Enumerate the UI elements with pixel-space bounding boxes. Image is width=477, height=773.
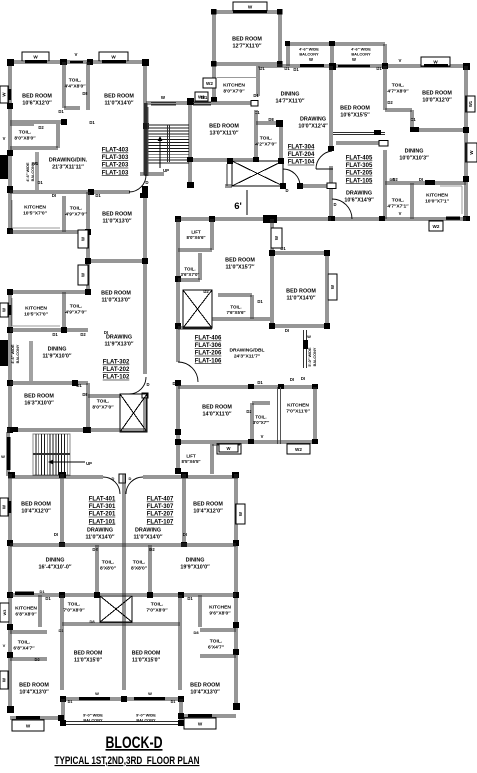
balcony label 9'-0 R	[136, 713, 156, 723]
svg-text:BED ROOM: BED ROOM	[132, 651, 161, 657]
balcony label vertical upper-left	[26, 162, 35, 182]
svg-text:W: W	[33, 54, 38, 59]
svg-text:4'7″X8'0″: 4'7″X8'0″	[387, 89, 409, 95]
bottom-left bedroom south wall	[10, 715, 64, 721]
wall y545	[10, 544, 236, 552]
svg-text:D: D	[129, 476, 132, 481]
room label DINING 10'0x10'3	[399, 149, 429, 162]
right wing balcony walls	[285, 41, 386, 66]
svg-text:10'4″X13'0″: 10'4″X13'0″	[19, 690, 49, 696]
room label TOIL 7'6x5'6	[227, 305, 247, 315]
svg-text:11'0″X13'0″: 11'0″X13'0″	[101, 298, 130, 304]
door DI marks drawing	[54, 532, 187, 537]
room label BED ROOM 14'0x11'0 mid	[202, 405, 232, 418]
flat labels 403	[102, 148, 129, 177]
svg-text:D1: D1	[76, 383, 82, 388]
svg-text:3'0″X7'″: 3'0″X7'″	[253, 420, 270, 425]
svg-text:DINING: DINING	[405, 149, 424, 155]
svg-text:D1: D1	[253, 93, 259, 98]
room label BED ROOM 11'0x15'0 R	[132, 651, 161, 664]
svg-text:FLAT-204: FLAT-204	[288, 152, 315, 158]
svg-text:FLAT-405: FLAT-405	[346, 156, 373, 162]
svg-text:11'9″X10'0″: 11'9″X10'0″	[42, 354, 71, 360]
room label LIFT 8'5x6'5	[182, 454, 202, 464]
svg-text:TOIL.: TOIL.	[230, 305, 241, 310]
svg-text:TOIL.: TOIL.	[68, 602, 81, 608]
window W box bottom-left wall	[0, 498, 12, 516]
toilet3 walls	[87, 383, 120, 432]
balcony label 9'-0 L	[83, 713, 103, 723]
svg-text:8'X8'0″: 8'X8'0″	[100, 566, 117, 572]
room label TOIL 8'0x8'0	[14, 130, 36, 142]
room label TOIL 7'0x8'0 L	[63, 602, 85, 614]
room label DRAWING/DBL 24'3x11'7	[229, 348, 264, 360]
svg-text:D1: D1	[58, 109, 64, 114]
toilet 4'7x8'0 walls	[385, 100, 413, 130]
svg-text:DRAWING: DRAWING	[87, 528, 113, 534]
svg-text:11'9″X13'0″: 11'9″X13'0″	[104, 342, 133, 348]
svg-text:D1: D1	[257, 380, 263, 385]
svg-text:BED ROOM: BED ROOM	[340, 106, 370, 112]
balcony wall 5'-0 wide	[303, 330, 311, 368]
svg-text:10'0″X12'0″: 10'0″X12'0″	[422, 98, 452, 104]
wall y383	[10, 380, 88, 388]
room label DRAWING/DIN 21'3x11'11	[49, 158, 88, 171]
svg-text:19'9″X10'0″: 19'9″X10'0″	[180, 565, 210, 571]
svg-text:BED ROOM: BED ROOM	[193, 502, 223, 508]
svg-text:BED ROOM: BED ROOM	[24, 394, 54, 400]
room label BED ROOM 11'0x14'0 mid	[286, 289, 316, 302]
room label TOIL 4'7x8'0	[387, 83, 409, 95]
svg-text:KITCHEN: KITCHEN	[223, 83, 245, 89]
lightwell windows W x2	[78, 230, 88, 285]
svg-text:16'-4″X10'-0″: 16'-4″X10'-0″	[39, 565, 72, 571]
svg-text:D: D	[333, 202, 336, 207]
svg-text:DINING: DINING	[186, 558, 205, 564]
svg-text:D1: D1	[52, 332, 58, 337]
right wing bottom wall	[328, 211, 466, 221]
lift C walls	[211, 443, 240, 474]
window W top-center	[233, 2, 267, 13]
svg-text:BED ROOM: BED ROOM	[422, 91, 452, 97]
room label DINING 14'7x11'0	[275, 92, 304, 105]
lift room B walls	[178, 219, 213, 251]
kitchen counter 2	[12, 298, 60, 326]
toilet 4'4x8'0 walls	[63, 62, 89, 110]
room label TOIL 4'9x7'0 (2)	[65, 304, 87, 316]
svg-text:14'7″X11'0″: 14'7″X11'0″	[275, 99, 304, 105]
staircase-2 treads	[33, 434, 70, 475]
bottom wing right wall	[233, 474, 240, 710]
svg-text:10'5″X7'0″: 10'5″X7'0″	[24, 312, 49, 318]
room label BED ROOM 10'0x12'0	[422, 91, 452, 104]
svg-text:FLAT-306: FLAT-306	[195, 343, 222, 349]
svg-text:W: W	[307, 334, 311, 339]
flat labels 405	[346, 156, 373, 185]
svg-text:DRAWING/DIN.: DRAWING/DIN.	[49, 158, 88, 164]
flat labels 401	[89, 497, 116, 526]
svg-text:DRAWING: DRAWING	[135, 528, 161, 534]
svg-text:BED ROOM: BED ROOM	[209, 124, 239, 130]
DI mark balcony	[301, 376, 305, 381]
window W box upper-left 2	[99, 52, 128, 63]
svg-text:D8: D8	[82, 91, 88, 96]
svg-text:W1: W1	[32, 161, 39, 166]
svg-text:11'0″X13'0″: 11'0″X13'0″	[102, 219, 131, 225]
svg-text:TOIL.: TOIL.	[97, 399, 110, 405]
svg-text:UP: UP	[86, 461, 92, 466]
room label BED ROOM 10'6x12'0	[22, 94, 52, 107]
svg-text:KITCHEN: KITCHEN	[426, 193, 448, 199]
balcony label 4'-6 wide (right)	[351, 47, 371, 57]
right wing top wall	[258, 57, 470, 72]
svg-text:W: W	[309, 57, 313, 62]
svg-text:W: W	[26, 723, 31, 728]
svg-text:7'6″X5'6″: 7'6″X5'6″	[227, 310, 247, 315]
svg-text:10'6″X15'5″: 10'6″X15'5″	[340, 113, 370, 119]
room label BED ROOM 10'4x13'0 R	[190, 683, 220, 696]
svg-text:V: V	[3, 136, 6, 141]
svg-text:BALCONY: BALCONY	[313, 347, 317, 366]
svg-text:10'5″X7'0″: 10'5″X7'0″	[23, 211, 48, 217]
svg-text:5'-0″ WIDE: 5'-0″ WIDE	[308, 347, 312, 367]
svg-text:KITCHEN: KITCHEN	[287, 403, 309, 409]
room label TOIL 8x8'0 R	[131, 560, 148, 572]
svg-text:FLAT-102: FLAT-102	[103, 375, 130, 381]
window W2 box flat408 bottom	[287, 444, 310, 454]
svg-text:FLAT-304: FLAT-304	[288, 145, 315, 151]
room label KITCHEN 7'0x11'0 mid	[286, 403, 310, 415]
bedroom right walls	[181, 474, 187, 547]
window W box bottom-left	[12, 716, 44, 731]
svg-text:TOIL.: TOIL.	[70, 206, 83, 212]
room label DRAWING 11'9x13'0	[104, 335, 133, 348]
svg-text:D8: D8	[268, 117, 274, 122]
svg-text:BED ROOM: BED ROOM	[102, 212, 132, 218]
flat403 entry door arc	[129, 175, 146, 193]
title TYPICAL 1ST,2ND,3RD FLOOR PLAN	[55, 755, 200, 767]
door marks y330	[52, 330, 108, 337]
svg-text:V: V	[261, 434, 264, 439]
svg-text:TOIL.: TOIL.	[210, 639, 223, 645]
svg-text:FLAT-104: FLAT-104	[288, 160, 315, 166]
room label KITCHEN 10'5x7'0 (2)	[24, 306, 49, 318]
svg-text:FLAT-107: FLAT-107	[147, 519, 174, 525]
svg-text:4'9″X7'0″: 4'9″X7'0″	[65, 212, 87, 218]
room label TOIL 6'x4'7	[208, 639, 225, 651]
svg-text:BED ROOM: BED ROOM	[225, 258, 255, 264]
window W box flat408 bottom	[217, 444, 241, 454]
room label KITCHEN 10'5x7'0 (1)	[23, 205, 48, 217]
kitchen counter 1	[12, 200, 60, 228]
svg-text:TOIL.: TOIL.	[70, 304, 83, 310]
toilet 8'0x8'0 walls	[10, 123, 59, 149]
svg-text:DI: DI	[290, 377, 294, 382]
center bedroom divider	[123, 627, 125, 690]
window V upper-left	[70, 52, 83, 63]
lobby walls y186	[225, 183, 333, 193]
svg-text:TOIL.: TOIL.	[255, 415, 266, 420]
svg-text:7'0″X11'0″: 7'0″X11'0″	[286, 409, 310, 415]
svg-text:FLAT-206: FLAT-206	[195, 351, 222, 357]
svg-text:11'0″X14'0″: 11'0″X14'0″	[104, 101, 133, 107]
svg-text:FLAT-401: FLAT-401	[89, 497, 116, 503]
room label BED ROOM 10'4x12'0 R	[193, 502, 223, 515]
svg-text:TOIL.: TOIL.	[151, 602, 164, 608]
staircase-1 up arrow	[158, 136, 170, 173]
svg-text:FLAT-202: FLAT-202	[103, 367, 130, 373]
svg-text:W1: W1	[201, 95, 208, 100]
svg-text:BED ROOM: BED ROOM	[190, 683, 220, 689]
svg-text:BED ROOM: BED ROOM	[19, 683, 49, 689]
svg-text:8'5″X6'5″: 8'5″X6'5″	[182, 459, 202, 464]
svg-text:W: W	[81, 273, 86, 277]
door DI D1 marks y192	[52, 193, 101, 198]
room label DRAWING 11'0x14'0 R	[133, 528, 162, 541]
bottom wing center wall	[123, 474, 125, 627]
svg-text:D8: D8	[82, 392, 88, 397]
staircase-2 up arrow	[48, 460, 92, 466]
room label BED ROOM 11'0x15'7	[225, 258, 255, 271]
svg-text:FLAT-105: FLAT-105	[346, 178, 373, 184]
svg-text:14'0″X11'0″: 14'0″X11'0″	[202, 412, 231, 418]
room label TOIL 4'2x7'0	[255, 136, 277, 148]
balcony bottom wall	[60, 720, 184, 726]
svg-text:11'0″X14'0″: 11'0″X14'0″	[85, 535, 114, 541]
room label BED ROOM 11'0x15'0 L	[74, 651, 103, 664]
svg-text:9'6″X8'0″: 9'6″X8'0″	[209, 611, 231, 617]
room label KITCHEN 8'0x7'0	[223, 83, 245, 95]
room label KITCHEN 9'6x8'0	[209, 605, 231, 617]
svg-text:DI: DI	[301, 376, 305, 381]
room label DRAWING 11'0x14'0 L	[85, 528, 114, 541]
svg-text:7'0″X8'0″: 7'0″X8'0″	[146, 608, 168, 614]
svg-text:V: V	[399, 211, 402, 216]
svg-text:FLAT-207: FLAT-207	[147, 512, 174, 518]
svg-text:7'0″X8'0″: 7'0″X8'0″	[63, 608, 85, 614]
svg-text:10'6″X14'9″: 10'6″X14'9″	[344, 198, 374, 204]
svg-text:BALCONY: BALCONY	[299, 52, 319, 57]
svg-text:BALCONY: BALCONY	[83, 718, 103, 723]
svg-text:D1: D1	[37, 180, 43, 185]
svg-text:W: W	[227, 446, 231, 451]
upper-left wing outer walls	[7, 59, 149, 432]
svg-text:LIFT: LIFT	[186, 454, 196, 459]
svg-text:D1: D1	[257, 299, 263, 304]
stairwell-1 walls	[140, 98, 258, 188]
svg-text:FLAT-407: FLAT-407	[147, 497, 174, 503]
walls kitchens/toilets	[39, 595, 201, 690]
bedroom 13'0x11'0 walls	[187, 110, 259, 162]
svg-text:8'0″X7'0″: 8'0″X7'0″	[92, 405, 114, 411]
svg-text:6'X4'7″: 6'X4'7″	[208, 645, 225, 651]
svg-text:D1: D1	[39, 589, 45, 594]
svg-text:10'0″X7'1″: 10'0″X7'1″	[425, 199, 450, 205]
svg-text:BED ROOM: BED ROOM	[202, 405, 232, 411]
svg-text:BED ROOM: BED ROOM	[74, 651, 103, 657]
bedroom left walls	[59, 474, 65, 547]
bedroom 11'0x14'0 walls	[269, 219, 330, 333]
svg-text:D1: D1	[95, 193, 101, 198]
room label DINING 16'-4x10'-0	[39, 558, 72, 571]
room label TOIL 4'4x8'0	[64, 78, 86, 90]
flat302 entry door arc	[129, 377, 150, 394]
bedroom 10'6x15'5 walls	[333, 66, 395, 182]
svg-text:DI: DI	[52, 193, 56, 198]
room label TOIL 4'7x7'1	[387, 198, 409, 210]
svg-text:FLAT-305: FLAT-305	[346, 163, 373, 169]
svg-text:D1: D1	[68, 700, 73, 704]
svg-text:KITCHEN: KITCHEN	[24, 205, 46, 211]
svg-text:TOIL.: TOIL.	[260, 136, 273, 142]
room label TOIL 3'0x7'	[253, 415, 270, 425]
svg-text:BALCONY: BALCONY	[351, 52, 371, 57]
svg-text:D1: D1	[187, 596, 193, 601]
svg-text:8'X8'0″: 8'X8'0″	[131, 566, 148, 572]
svg-text:DRAWING/DBL: DRAWING/DBL	[229, 348, 264, 354]
svg-text:D1: D1	[58, 628, 64, 633]
room label BED ROOM 12'7x11'0	[232, 37, 262, 50]
svg-text:D: D	[172, 381, 175, 386]
svg-text:W: W	[2, 308, 7, 312]
top-center block walls	[211, 9, 283, 102]
room label BED ROOM 11'0x13'0 (2)	[101, 291, 131, 304]
wall y430	[7, 427, 147, 433]
kitchen mid walls	[278, 387, 317, 444]
balcony label vertical 5'-0	[308, 347, 317, 367]
kitchen counter top-center	[217, 78, 258, 93]
kitchen/toilet top wall y183	[384, 150, 466, 219]
window W box wall x272	[271, 228, 282, 248]
svg-text:11'0″X15'0″: 11'0″X15'0″	[74, 657, 102, 663]
svg-text:BALCONY: BALCONY	[136, 718, 156, 723]
svg-text:8'0″X8'0″: 8'0″X8'0″	[14, 136, 36, 142]
svg-text:11'0″X14'0″: 11'0″X14'0″	[286, 296, 315, 302]
svg-text:DRAWING: DRAWING	[106, 335, 132, 341]
svg-text:V: V	[3, 643, 6, 648]
svg-text:FLAT-101: FLAT-101	[89, 519, 116, 525]
corridor 6ft dimension	[234, 190, 247, 215]
svg-text:D1: D1	[376, 66, 382, 71]
svg-text:DI: DI	[285, 328, 289, 333]
svg-text:D: D	[145, 180, 148, 185]
room label DRAWING 10'6x14'9	[344, 191, 374, 204]
dining window marker	[336, 141, 388, 147]
svg-text:BALCONY: BALCONY	[16, 344, 20, 363]
flat labels 304	[288, 145, 315, 166]
window W1 box	[195, 92, 208, 101]
room label KITCHEN 10'0x7'1	[425, 193, 450, 205]
svg-text:V: V	[75, 52, 78, 57]
svg-text:KITCHEN: KITCHEN	[209, 605, 231, 611]
svg-text:FLAT-103: FLAT-103	[102, 170, 129, 176]
room label TOIL 6'8x4'7	[13, 619, 95, 662]
flat408 bottom wall	[175, 434, 318, 445]
kitchen row walls	[10, 192, 91, 292]
room label BED ROOM 16'3x10'0	[24, 394, 54, 407]
room label TOIL 4'9x7'0 (1)	[65, 206, 87, 218]
wall y650 right	[193, 629, 236, 657]
svg-text:BED ROOM: BED ROOM	[22, 94, 52, 100]
toilet 3'6x7'0 walls	[178, 253, 201, 281]
svg-text:W: W	[111, 54, 116, 59]
room label DRAWING 10'0x12'4	[298, 117, 328, 130]
window V + W box right wing top	[399, 57, 450, 67]
svg-text:KITCHEN: KITCHEN	[25, 306, 47, 312]
svg-text:12'7″X11'0″: 12'7″X11'0″	[232, 44, 261, 50]
svg-text:10'6″X12'0″: 10'6″X12'0″	[22, 101, 52, 107]
middle-left wing outer walls	[7, 289, 91, 433]
svg-text:13'0″X11'0″: 13'0″X11'0″	[209, 131, 238, 137]
window W box bottom-left wall 2	[0, 603, 9, 689]
door D1 labels top-center	[253, 66, 290, 115]
svg-text:W2: W2	[433, 224, 440, 229]
right wing east wall	[463, 66, 470, 221]
svg-text:TOIL.: TOIL.	[19, 130, 32, 136]
window W box lift C	[219, 444, 238, 452]
window W2 box	[203, 78, 216, 88]
svg-text:10'0″X10'3″: 10'0″X10'3″	[399, 156, 429, 162]
room label TOIL 3'6x7'0	[181, 267, 201, 277]
bottom-right bedroom south wall	[178, 713, 236, 719]
svg-text:BED ROOM: BED ROOM	[104, 94, 134, 100]
svg-text:11'0″X14'0″: 11'0″X14'0″	[133, 535, 162, 541]
toilet 4'2x7'0 walls	[256, 117, 283, 161]
svg-text:DINING: DINING	[46, 558, 65, 564]
window W box upper-left 1	[22, 52, 49, 63]
svg-text:D1: D1	[410, 117, 416, 122]
svg-text:4'9″X7'0″: 4'9″X7'0″	[65, 310, 87, 316]
svg-text:D2: D2	[387, 100, 393, 105]
kitchen2/toilet walls	[10, 292, 88, 333]
svg-text:D8: D8	[89, 619, 95, 624]
window W1 box bottom-right wall	[236, 504, 245, 524]
svg-text:UP: UP	[163, 168, 169, 173]
svg-text:DRAWING: DRAWING	[346, 191, 372, 197]
flat labels 302	[103, 360, 130, 381]
svg-text:10'0″X12'4″: 10'0″X12'4″	[298, 124, 328, 130]
svg-text:D2: D2	[38, 125, 44, 130]
bedroom divider wall y261	[85, 258, 148, 264]
drawing entry door arc	[332, 199, 352, 219]
wall y595	[10, 592, 236, 601]
room label BED ROOM 13'0x11'0	[209, 124, 239, 137]
toilet pair walls	[96, 545, 151, 595]
wall y690 balcony top	[60, 691, 184, 704]
svg-text:W2: W2	[206, 81, 213, 86]
svg-text:BED ROOM: BED ROOM	[21, 502, 51, 508]
wall y655 left	[10, 631, 47, 660]
svg-text:V: V	[399, 58, 402, 63]
svg-text:W3: W3	[3, 610, 7, 616]
balcony wall middle-left	[0, 340, 32, 381]
door arc flat304 x331	[316, 151, 336, 189]
door W1 D1 marks drawing	[32, 161, 43, 185]
lift shaft main	[227, 158, 284, 186]
staircase-1 treads	[148, 107, 189, 176]
middle wing left wall	[175, 219, 181, 474]
svg-text:D2: D2	[149, 547, 155, 552]
svg-text:8'0″X6'6″: 8'0″X6'6″	[187, 235, 207, 240]
svg-text:W2: W2	[295, 447, 302, 452]
room label DINING 11'9x10'0	[42, 347, 71, 360]
svg-text:W1: W1	[468, 100, 473, 107]
window W box left wall	[0, 86, 12, 103]
wall below bedroom1	[10, 119, 67, 125]
window W2 box right wing bottom	[429, 221, 443, 231]
window W box bedroom east	[328, 274, 337, 300]
bottom wing left wall	[7, 474, 14, 713]
